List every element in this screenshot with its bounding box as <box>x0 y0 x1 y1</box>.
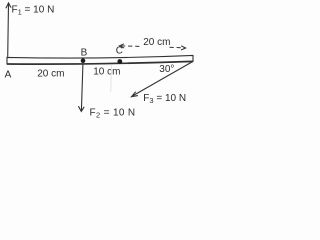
svg-text:20 cm: 20 cm <box>143 37 170 48</box>
svg-text:B: B <box>81 47 88 58</box>
svg-text:F1 = 10 N: F1 = 10 N <box>12 4 55 16</box>
node C dot <box>117 59 122 64</box>
force F3 arrow (30 deg at right end) <box>132 61 194 96</box>
svg-text:20 cm: 20 cm <box>37 68 64 79</box>
force F2 arrow (downward at B) <box>78 64 84 111</box>
paper crease (faint) <box>110 65 113 92</box>
dashed dimension arrow 20 cm (C to right end) <box>119 44 185 50</box>
force F1 arrow (upward at A) <box>6 3 11 58</box>
node B dot <box>81 58 86 63</box>
svg-text:F2 = 10 N: F2 = 10 N <box>90 107 136 119</box>
svg-text:F3 = 10 N: F3 = 10 N <box>143 93 186 105</box>
svg-text:A: A <box>5 70 12 81</box>
beam AB C (lever bar) <box>7 55 193 64</box>
svg-text:10 cm: 10 cm <box>93 67 120 78</box>
